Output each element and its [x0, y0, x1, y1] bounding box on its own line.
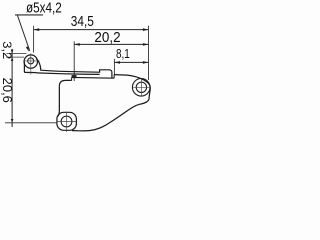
arm bottom edge	[37, 73, 100, 75]
svg-text:ø5x4,2: ø5x4,2	[26, 1, 62, 17]
bottom-left centerline vertical	[66, 112, 68, 132]
extension line right shared	[148, 26, 150, 80]
top lug hole	[28, 58, 34, 64]
nub left vertical	[71, 77, 73, 80]
svg-text:20,2: 20,2	[94, 29, 120, 46]
dimension 8,1 line	[114, 61, 148, 63]
arm top edge	[36, 59, 112, 79]
step up at right	[113, 75, 115, 79]
body left edge	[58, 86, 59, 116]
bottom-left lug boss outline	[57, 112, 77, 130]
tick lower 3,2	[7, 56, 25, 58]
extension line left of 20,2	[73, 41, 75, 81]
body top edge	[72, 76, 115, 79]
upper ledge toward right lug, corner, right edge, tail and bottom outline	[72, 75, 150, 131]
top lug outer circle	[24, 55, 37, 68]
arrow 8,1 right	[143, 61, 149, 64]
body top-left ledge and corner	[59, 80, 71, 86]
bottom-left lug hole	[61, 116, 72, 127]
right lug boss circle	[132, 79, 150, 97]
right lug centerline horizontal	[133, 86, 150, 88]
extension line left of 8,1	[113, 59, 115, 75]
arrow 3,2/20,6 (up)	[11, 57, 14, 61]
arrow 3,2 top (down)	[11, 50, 14, 54]
top lug centerline horizontal	[23, 60, 39, 62]
bottom-left centerline horizontal	[57, 121, 78, 123]
top lug skirt (left+bottom edges)	[24, 62, 36, 73]
svg-text:3,2: 3,2	[0, 41, 12, 59]
nub connecting arm to body	[72, 75, 77, 78]
dimension 20,2 line	[74, 43, 148, 45]
arrow 20,2 right	[143, 43, 149, 46]
right lug hole	[136, 82, 146, 92]
svg-text:20,6: 20,6	[0, 78, 14, 103]
tick bottom 20,6	[5, 122, 58, 124]
arrow 20,6 bottom (down)	[11, 119, 14, 123]
leader line to hole	[17, 15, 29, 51]
svg-text:34,5: 34,5	[71, 13, 94, 30]
arrow 20,2 left	[74, 43, 80, 46]
arrow 8,1 left	[114, 61, 120, 64]
arrow 34,5 left	[34, 28, 40, 31]
leader shelf under callout	[15, 14, 43, 16]
arrow 34,5 right	[143, 28, 149, 31]
right lug centerline vertical	[140, 79, 142, 96]
svg-text:8,1: 8,1	[116, 47, 130, 61]
tick upper 3,2	[7, 52, 27, 54]
leader arrowhead	[26, 46, 29, 51]
extension line left of 34,5	[33, 26, 35, 53]
top lug centerline vertical	[30, 53, 32, 74]
dimension 34,5 line	[34, 29, 149, 31]
left vertical dimension line (3,2 and 20,6)	[11, 49, 13, 127]
